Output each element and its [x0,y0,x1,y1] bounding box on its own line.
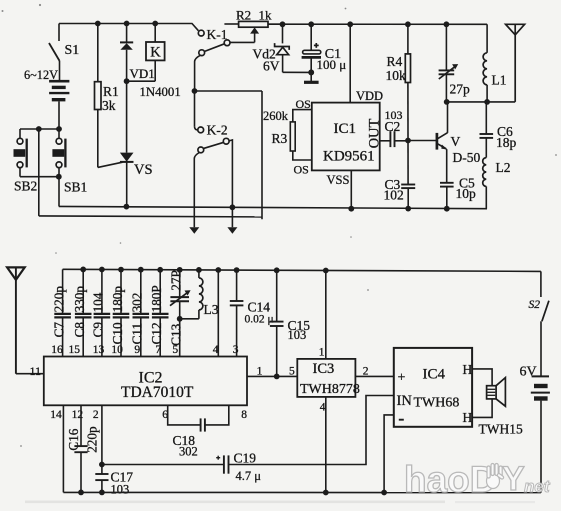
svg-text:10: 10 [111,344,123,356]
svg-text:net: net [524,477,551,496]
svg-text:16: 16 [51,344,63,356]
svg-text:IN: IN [397,393,413,409]
svg-text:S2: S2 [529,299,541,311]
svg-text:C13: C13 [169,323,184,345]
svg-text:TWH15: TWH15 [479,422,523,437]
svg-text:C12: C12 [149,322,164,344]
svg-text:1: 1 [319,347,325,359]
svg-text:1k: 1k [259,7,273,22]
svg-text:VSS: VSS [327,173,350,187]
svg-text:C2: C2 [385,119,401,134]
svg-text:302: 302 [130,293,145,313]
svg-text:K-1: K-1 [207,27,228,42]
svg-text:5: 5 [172,344,178,356]
svg-text:3: 3 [233,344,239,356]
svg-text:K-2: K-2 [207,123,228,138]
svg-text:TWH68: TWH68 [414,396,460,411]
svg-text:C19: C19 [234,451,257,466]
svg-text:9: 9 [134,344,140,356]
svg-text:10p: 10p [456,186,477,201]
svg-text:27p: 27p [450,82,471,97]
svg-text:4.7 μ: 4.7 μ [236,469,262,483]
svg-text:C10: C10 [110,322,125,344]
svg-text:103: 103 [111,482,130,496]
svg-text:220p: 220p [51,286,66,313]
svg-text:H: H [463,362,473,377]
svg-text:KD9561: KD9561 [323,149,375,165]
svg-text:8: 8 [241,409,247,421]
svg-text:102: 102 [384,188,404,203]
svg-text:Y: Y [502,460,525,498]
svg-text:260k: 260k [263,109,289,123]
svg-text:1: 1 [257,364,263,378]
svg-text:18p: 18p [496,135,517,150]
svg-text:VD1: VD1 [130,66,155,81]
svg-text:OS: OS [294,163,309,177]
svg-text:180p: 180p [110,286,125,313]
svg-text:6V: 6V [263,59,280,74]
svg-text:SB1: SB1 [64,180,87,195]
svg-text:220p: 220p [85,426,100,453]
svg-text:330p: 330p [72,286,87,313]
svg-text:C14: C14 [248,300,271,315]
svg-text:C7: C7 [51,322,66,338]
svg-text:4: 4 [320,402,326,414]
svg-text:haoD: haoD [404,459,497,500]
svg-text:R2: R2 [236,7,251,22]
svg-text:1N4001: 1N4001 [140,85,181,99]
svg-text:13: 13 [93,344,105,356]
svg-text:180P: 180P [149,285,164,312]
svg-text:3k: 3k [102,98,116,113]
svg-text:104: 104 [91,292,106,312]
svg-text:IC1: IC1 [334,121,357,137]
svg-text:D-50: D-50 [453,150,481,165]
svg-text:VS: VS [134,162,153,178]
svg-text:L3: L3 [204,302,219,317]
svg-text:100 μ: 100 μ [317,57,347,72]
svg-text:TWH8778: TWH8778 [300,382,360,397]
svg-text:R3: R3 [272,131,288,146]
svg-text:VDD: VDD [356,89,383,103]
svg-text:0.02 μ: 0.02 μ [245,313,274,325]
svg-text:27P: 27P [169,270,184,291]
svg-text:L2: L2 [496,160,511,175]
svg-text:C8: C8 [72,322,87,338]
svg-text:302: 302 [179,444,198,458]
svg-text:+: + [398,370,406,385]
svg-text:V: V [451,134,461,149]
svg-text:L1: L1 [492,73,507,88]
svg-text:S1: S1 [65,43,80,58]
svg-text:11: 11 [30,364,42,378]
svg-text:7: 7 [155,344,161,356]
svg-text:H: H [463,410,473,425]
svg-text:OUT: OUT [367,118,383,148]
svg-text:5: 5 [289,366,295,378]
svg-text:SB2: SB2 [14,179,37,194]
svg-text:C9: C9 [91,322,106,338]
svg-text:4: 4 [213,344,219,356]
svg-text:C11: C11 [130,323,145,345]
svg-text:103: 103 [288,328,307,342]
svg-text:14: 14 [50,409,62,421]
svg-text:IC3: IC3 [313,361,335,377]
svg-text:C16: C16 [66,428,81,450]
svg-text:10k: 10k [386,68,407,83]
svg-text:TDA7010T: TDA7010T [121,384,194,401]
svg-text:OS: OS [296,97,311,111]
svg-text:IC4: IC4 [423,366,446,382]
svg-text:R1: R1 [103,84,119,99]
svg-text:2: 2 [93,409,99,421]
svg-text:15: 15 [69,344,81,356]
svg-text:K: K [150,44,161,60]
svg-text:6V: 6V [520,365,537,380]
